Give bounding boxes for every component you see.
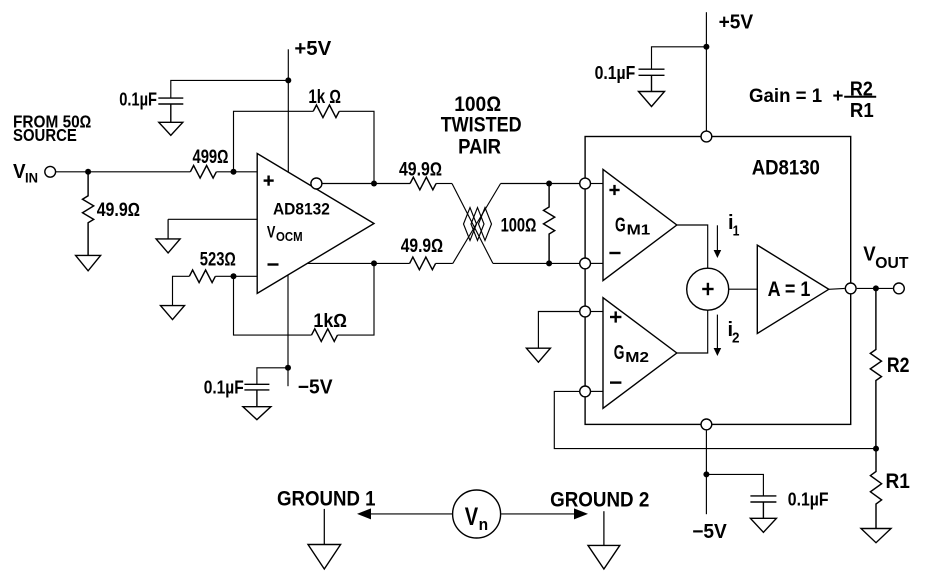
pin -5V supply AD8130 (701, 419, 712, 430)
pin output AD8130 (845, 283, 856, 294)
source Vn (453, 490, 501, 538)
svg-text:499Ω: 499Ω (193, 147, 229, 168)
svg-text:G: G (614, 342, 625, 364)
resistor R1 (870, 449, 881, 529)
svg-text:M1: M1 (627, 222, 651, 239)
svg-text:SOURCE: SOURCE (13, 125, 77, 145)
summer node (687, 268, 729, 310)
wire GM2 output to summer (677, 310, 708, 353)
resistor 523 ohm (189, 270, 215, 283)
label GM2 (614, 342, 649, 366)
label GM1 (615, 214, 650, 238)
receiver block AD8130 (585, 137, 851, 425)
svg-text:49.9Ω: 49.9Ω (401, 236, 443, 257)
wire +5V to capacitor top-right (652, 47, 707, 69)
arrow Vn to GROUND 2 (501, 508, 588, 519)
wire feedback top left vertical (234, 111, 314, 172)
junction -5V decoupling tap left (285, 365, 291, 371)
wire twisted pair diagonal bottom-to-top (453, 184, 501, 264)
pin minus mark GM2 (610, 381, 621, 383)
svg-text:100Ω: 100Ω (501, 215, 537, 236)
junction VOUT feedback node (873, 285, 879, 291)
wire GM2 plus ground branch (538, 312, 579, 349)
wire -5V to capacitor bottom-right (706, 474, 763, 496)
bubble inverted output AD8132 (311, 178, 322, 189)
junction top output feedback node (371, 181, 377, 187)
ground below 49.9 ohm shunt (76, 255, 101, 270)
twisted pair twist loops (464, 208, 492, 241)
capacitor 0.1uF top-left (158, 98, 183, 104)
arrow current i1 (714, 225, 722, 258)
svg-text:1: 1 (733, 223, 740, 240)
svg-text:GROUND 1: GROUND 1 (277, 487, 376, 510)
wire twisted pair top-right lead (501, 183, 580, 185)
wire summer to A=1 buffer (729, 288, 758, 290)
resistor 49.9 ohm top (410, 177, 436, 190)
svg-text:1kΩ: 1kΩ (313, 311, 347, 332)
svg-text:V: V (465, 503, 479, 531)
junction bottom output feedback node (371, 260, 377, 266)
pin minus mark AD8132 (268, 263, 279, 265)
plus mark summer (702, 283, 713, 295)
ground below bottom-left capacitor (243, 390, 271, 420)
wire pin1 to GM1 plus (591, 183, 603, 185)
svg-text:+5V: +5V (719, 12, 754, 34)
wire +5V supply vertical (287, 49, 289, 172)
op-amp A = 1 buffer (757, 245, 829, 333)
wire feedback bottom left vertical (234, 276, 312, 335)
wire VOCM input (168, 218, 257, 220)
amplifier GM1 (603, 169, 677, 280)
pin GM2 minus input (580, 386, 591, 397)
pin GM1 minus input (580, 258, 591, 269)
wire 523 ohm to AD8132 minus input (215, 275, 257, 277)
junction plus input node (231, 169, 237, 175)
svg-text:2: 2 (732, 330, 740, 347)
svg-text:1k Ω: 1k Ω (308, 87, 341, 108)
junction VIN node (85, 169, 91, 175)
wire GM2 minus feedback rail (554, 391, 876, 448)
pin GM1 plus input (580, 178, 591, 189)
resistor 1k ohm top feedback (313, 105, 339, 118)
wire 523 ohm hook to ground (173, 276, 190, 305)
pin VOCM label (267, 223, 303, 244)
junction termination top (546, 181, 552, 187)
ground symbol GROUND 2 (588, 511, 620, 569)
wire -5V supply vertical left (287, 275, 289, 386)
pin GM2 plus input (580, 306, 591, 317)
svg-text:M2: M2 (625, 349, 649, 366)
wire feedback bottom right vertical (338, 263, 375, 335)
svg-text:R1: R1 (886, 470, 911, 493)
svg-text:R1: R1 (850, 100, 874, 122)
wire +5V to capacitor (171, 80, 288, 98)
ground symbol GROUND 1 (308, 509, 341, 569)
ground below top-left capacitor (159, 104, 183, 135)
svg-text:−5V: −5V (692, 521, 727, 543)
svg-text:0.1µF: 0.1µF (204, 377, 244, 397)
pin plus mark AD8132 (264, 176, 274, 186)
wire -5V supply vertical right (705, 430, 707, 514)
pin plus mark GM1 (609, 185, 619, 195)
label i1 (728, 212, 739, 240)
svg-text:n: n (479, 515, 489, 534)
ground below bottom-right capacitor (750, 502, 776, 532)
wire +5V supply vertical right (705, 12, 707, 130)
svg-text:0.1µF: 0.1µF (788, 489, 829, 509)
wire -5V to capacitor bottom-left (257, 368, 288, 385)
wire twisted pair bottom-left lead (436, 262, 453, 264)
ground at GM2 plus input (526, 348, 550, 362)
formula Gain = 1 + R2/R1 (749, 79, 876, 122)
svg-text:V: V (267, 223, 276, 242)
junction termination bottom (546, 260, 552, 266)
wire twisted pair top-left lead (436, 183, 452, 185)
junction +5V decoupling tap (285, 77, 291, 83)
capacitor 0.1uF bottom-left (244, 384, 269, 390)
arrow current i2 (714, 315, 722, 356)
wire GM1 output to summer (677, 225, 708, 268)
wire AD8132 top output (322, 183, 410, 185)
svg-text:IN: IN (25, 170, 38, 186)
svg-text:AD8132: AD8132 (273, 200, 330, 219)
pin minus mark GM1 (609, 252, 620, 254)
svg-text:49.9Ω: 49.9Ω (399, 160, 442, 181)
svg-text:AD8130: AD8130 (752, 157, 820, 180)
terminal VOUT (894, 283, 905, 294)
svg-text:−5V: −5V (298, 376, 333, 398)
svg-text:+5V: +5V (294, 38, 332, 60)
ground on VOCM wire (156, 219, 180, 253)
svg-text:0.1µF: 0.1µF (595, 63, 636, 83)
terminal VIN (45, 166, 56, 177)
wire VIN to 499 ohm (56, 171, 190, 173)
svg-text:523Ω: 523Ω (200, 250, 236, 271)
svg-text:G: G (615, 214, 626, 236)
ground below top-right capacitor (639, 75, 665, 106)
svg-text:Gain = 1 +: Gain = 1 + (749, 85, 843, 107)
node VOUT label (863, 244, 909, 272)
resistor 499 ohm (190, 166, 216, 179)
wire twisted pair diagonal top-to-bottom (452, 184, 493, 264)
junction minus input node (231, 273, 237, 279)
wire AD8132 bottom output (307, 262, 409, 264)
wire pin4 to GM2 minus (591, 390, 603, 392)
resistor 100 ohm termination (544, 184, 555, 264)
label Vn (465, 503, 488, 534)
svg-text:0.1µF: 0.1µF (119, 90, 157, 110)
wire pin3 to GM2 plus (591, 311, 603, 313)
resistor 1k ohm bottom feedback (312, 329, 338, 342)
ground below R1 (861, 529, 891, 543)
svg-text:OCM: OCM (276, 229, 303, 244)
pin +5V supply AD8130 (701, 131, 712, 142)
resistor 49.9 ohm bottom (410, 257, 436, 270)
junction +5V decoupling tap right (703, 44, 709, 50)
junction R2 R1 feedback node (873, 446, 879, 452)
svg-text:TWISTED: TWISTED (441, 114, 522, 137)
resistor 49.9 ohm shunt (83, 172, 94, 256)
wire 499 ohm to AD8132 plus input (216, 171, 257, 173)
ground below 523 ohm (161, 306, 185, 320)
wire buffer output to pin (829, 287, 845, 290)
label i2 (728, 319, 740, 347)
wire feedback top right vertical (339, 111, 374, 183)
resistor R2 (870, 288, 881, 448)
capacitor 0.1uF bottom-right (750, 496, 776, 502)
label FROM 50 OHM SOURCE (13, 111, 92, 145)
svg-text:PAIR: PAIR (458, 136, 501, 159)
arrow Vn to GROUND 1 (357, 508, 452, 519)
op-amp AD8132 (257, 154, 374, 294)
capacitor 0.1uF top-right (639, 69, 665, 75)
svg-text:R2: R2 (887, 354, 910, 377)
junction -5V decoupling tap right (703, 471, 709, 477)
pin plus mark GM2 (610, 311, 621, 322)
amplifier GM2 (603, 298, 677, 409)
svg-text:49.9Ω: 49.9Ω (97, 200, 140, 221)
node VIN label (13, 161, 38, 186)
svg-text:OUT: OUT (875, 255, 909, 272)
wire output pin to VOUT terminal (857, 287, 893, 289)
label 100 ohm TWISTED PAIR (441, 93, 522, 158)
wire twisted pair bottom-right lead (493, 262, 579, 264)
svg-text:A = 1: A = 1 (768, 278, 811, 301)
svg-text:GROUND 2: GROUND 2 (550, 489, 649, 512)
wire pin2 to GM1 minus (591, 262, 603, 264)
